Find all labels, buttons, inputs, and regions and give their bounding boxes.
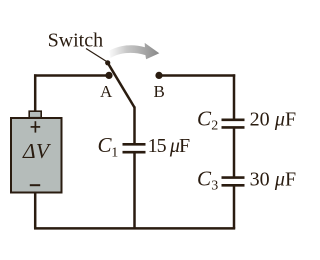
svg-text:1: 1: [111, 146, 118, 161]
switch leader line: [86, 49, 107, 62]
switch motion arrow: [109, 43, 159, 59]
switch pivot dot: [105, 60, 110, 65]
svg-text:C: C: [98, 133, 113, 157]
svg-text:C: C: [197, 106, 212, 130]
wire top-left horizontal: [34, 74, 109, 77]
svg-text:2: 2: [211, 119, 218, 134]
node A: [105, 72, 112, 79]
wire right vertical upper: [233, 74, 236, 119]
switch blade: [108, 63, 135, 108]
capacitor C2: [222, 120, 245, 128]
battery + label: [31, 121, 41, 132]
svg-text:Switch: Switch: [48, 29, 104, 51]
capacitor C3: [222, 178, 245, 186]
wire middle branch upper: [133, 107, 136, 146]
svg-text:C: C: [197, 166, 212, 190]
wire left vertical: [34, 74, 37, 112]
svg-text:20 μF: 20 μF: [250, 108, 297, 130]
battery − label: [30, 184, 40, 186]
node B: [155, 72, 162, 79]
wire right vertical middle: [233, 127, 236, 178]
battery body: [11, 118, 62, 193]
wire battery bottom: [34, 193, 37, 229]
svg-text:3: 3: [211, 179, 218, 194]
svg-text:ΔV: ΔV: [22, 139, 52, 163]
capacitor C1: [123, 144, 146, 152]
wire bottom horizontal: [34, 227, 235, 230]
svg-text:30 μF: 30 μF: [250, 168, 297, 190]
wire right vertical lower: [233, 185, 236, 229]
svg-text:A: A: [100, 82, 113, 101]
svg-text:B: B: [154, 82, 165, 101]
battery terminal nub: [29, 111, 41, 118]
svg-text:15 μF: 15 μF: [148, 135, 191, 157]
wire middle branch lower: [133, 153, 136, 229]
wire top-right horizontal: [159, 74, 235, 77]
